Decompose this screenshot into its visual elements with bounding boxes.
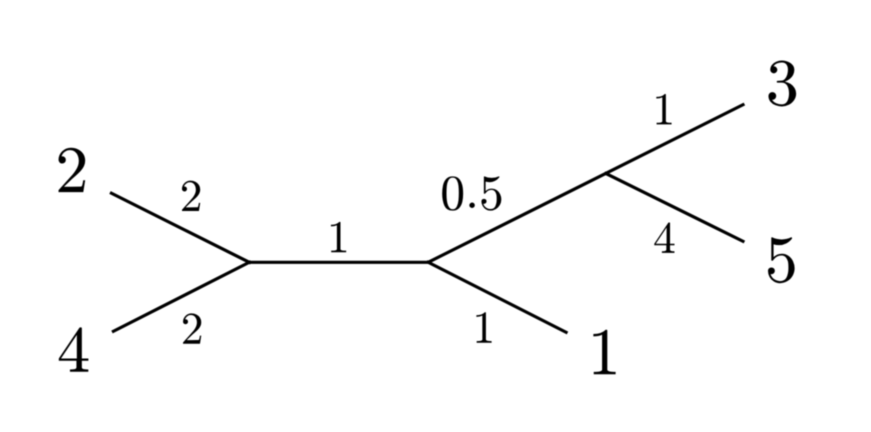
leaf label 5 — [768, 237, 795, 283]
wire edge from internal node B to leaf 1 — [427, 262, 568, 334]
edge weight label 0.5 on B-C edge: decimal point — [469, 203, 474, 208]
wire edge internal node A to internal node B, weight 1 — [248, 261, 430, 264]
leaf label 3 — [768, 61, 796, 107]
edge weight label 1 on leaf-3 edge — [656, 94, 671, 124]
edge weight label 1 on A-B edge — [331, 222, 346, 252]
leaf label 1 — [593, 330, 615, 374]
edge weight label 0.5 on B-C edge: digit 0 — [442, 176, 463, 210]
wire edge from leaf 4 to internal node A — [112, 262, 251, 333]
wire edge internal node B through node C to leaf 3 — [428, 104, 744, 262]
edge weight label 2 on leaf-2 edge — [182, 181, 200, 211]
edge weight label 1 on leaf-1 edge — [476, 312, 491, 342]
wire edge from leaf 2 to internal node A — [110, 193, 251, 264]
edge weight label 4 on leaf-5 edge — [654, 222, 674, 252]
leaf label 4 — [59, 327, 89, 371]
leaf label 2 — [59, 148, 86, 192]
wire edge from internal node C to leaf 5 — [605, 173, 745, 242]
edge weight label 2 on leaf-4 edge — [183, 313, 201, 343]
edge weight label 0.5 on B-C edge: digit 5 — [481, 176, 501, 210]
